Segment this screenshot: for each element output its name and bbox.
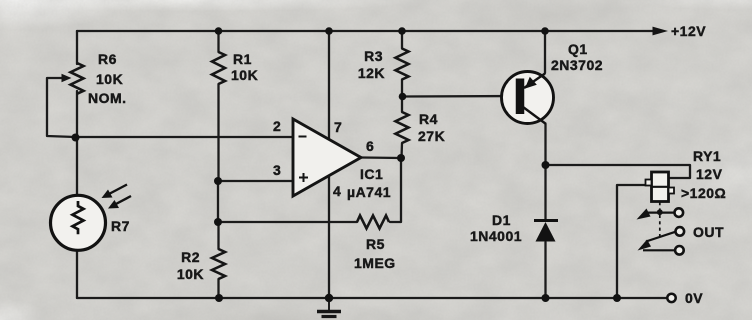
light arrow 2 into R7: [108, 196, 131, 209]
wire R3 top lead: [401, 31, 403, 49]
potentiometer R6 wiper arrow: [62, 74, 72, 82]
node R1 top: [215, 27, 223, 35]
label R1 10K: [231, 51, 258, 83]
svg-text:3: 3: [273, 162, 281, 178]
resistor R2: [212, 249, 225, 279]
svg-text:RY1: RY1: [693, 148, 721, 164]
relay contact NC arm: [637, 209, 676, 220]
diode D1: [534, 221, 558, 242]
svg-text:27K: 27K: [418, 128, 445, 144]
svg-text:7: 7: [334, 119, 342, 135]
node divider pin 3: [214, 177, 222, 185]
svg-text:R7: R7: [111, 218, 130, 234]
photoresistor R7: [51, 195, 106, 250]
wire R5 right lead and feedback vertical: [390, 158, 401, 222]
relay coil RY1: [646, 172, 675, 202]
wire R6 wiper loop: [47, 78, 75, 137]
label D1 1N4001: [470, 212, 522, 244]
svg-text:12K: 12K: [358, 65, 385, 81]
wire 0V bottom rail: [77, 297, 668, 299]
svg-text:+12V: +12V: [671, 23, 706, 39]
node R5 left: [214, 218, 222, 226]
label R6 10K NOM.: [88, 51, 127, 106]
wire D1 to 0V rail: [544, 242, 546, 298]
wire divider to R5 node: [217, 181, 219, 222]
node output junction: [397, 154, 405, 162]
node relay 0V junction: [613, 294, 621, 302]
wire op-amp pin 7 supply: [328, 31, 330, 139]
wire R6 bottom lead to junction: [76, 91, 78, 138]
svg-text:1MEG: 1MEG: [354, 255, 396, 271]
node R2 bottom: [215, 294, 223, 302]
wire relay coil to 0V: [617, 185, 651, 298]
node R6 bottom junction: [72, 134, 80, 142]
node D1 bottom: [542, 294, 550, 302]
label RY1 12V >120ohm: [681, 148, 726, 201]
wire junction to R7: [76, 138, 78, 195]
wire R3 to R4: [401, 80, 403, 113]
power +12V terminal arrow: [653, 27, 669, 36]
transistor Q1: [502, 72, 554, 125]
label R2 10K: [177, 249, 204, 282]
label R3 12K: [358, 48, 385, 81]
resistor R3: [396, 49, 409, 80]
wire base of Q1: [403, 95, 520, 98]
svg-text:6: 6: [366, 138, 374, 154]
svg-text:10K: 10K: [177, 266, 204, 282]
relay contact terminal middle: [676, 227, 685, 236]
node base junction: [399, 93, 407, 101]
wire R1 bottom lead: [217, 84, 219, 181]
wire op-amp pin 4 to ground: [328, 176, 330, 298]
svg-text:4: 4: [333, 183, 341, 199]
node pin 4 ground: [325, 294, 333, 302]
wire R5 left lead: [218, 221, 357, 223]
wire Q1 collector down: [544, 124, 546, 220]
label IC1 µA741: [347, 166, 391, 200]
svg-text:R1: R1: [233, 51, 252, 67]
wire R1 top lead: [217, 31, 219, 52]
node collector relay junction: [542, 161, 550, 169]
wire R4 bottom lead: [400, 143, 403, 158]
wire +12V top rail: [77, 30, 654, 32]
svg-text:2: 2: [273, 118, 281, 134]
relay mechanical link dashed: [659, 202, 661, 236]
svg-text:µA741: µA741: [347, 184, 391, 200]
svg-text:2N3702: 2N3702: [551, 57, 603, 73]
svg-text:D1: D1: [492, 212, 511, 228]
light arrow 1 into R7: [102, 185, 128, 199]
relay contact NO arm: [643, 249, 674, 251]
node R3 top: [398, 27, 406, 35]
svg-text:IC1: IC1: [360, 166, 383, 182]
relay contact terminal bottom: [675, 246, 684, 255]
svg-text:R5: R5: [366, 236, 385, 252]
label Q1 2N3702: [551, 41, 603, 73]
resistor R1: [212, 52, 225, 84]
svg-text:OUT: OUT: [693, 224, 724, 240]
svg-text:12V: 12V: [696, 166, 723, 182]
op-amp IC1: [293, 119, 361, 196]
label R4 27K: [418, 111, 445, 144]
wire collector to relay coil: [546, 165, 691, 178]
svg-text:R6: R6: [98, 51, 117, 67]
svg-text:R2: R2: [181, 249, 200, 265]
svg-text:Q1: Q1: [568, 41, 588, 57]
label R5 1MEG: [354, 236, 396, 271]
wire R7 to 0V rail: [76, 251, 78, 298]
resistor R5: [357, 216, 389, 229]
wire R2 bottom lead: [217, 279, 219, 298]
svg-text:0V: 0V: [685, 290, 703, 306]
wire left column R6 top lead: [76, 31, 78, 64]
svg-text:10K: 10K: [231, 67, 258, 83]
wire op-amp output pin 6: [361, 156, 401, 159]
resistor R4: [396, 112, 409, 143]
wire R2 top lead: [217, 222, 219, 249]
relay contact terminal top: [675, 208, 684, 217]
potentiometer R6: [71, 63, 84, 94]
svg-text:R4: R4: [419, 111, 438, 127]
wire pin 2 input: [76, 136, 293, 138]
terminal 0V: [667, 294, 675, 302]
ground: [317, 298, 341, 317]
svg-text:>120Ω: >120Ω: [681, 185, 726, 201]
node Q1 emitter top: [541, 27, 549, 35]
svg-text:1N4001: 1N4001: [470, 228, 522, 244]
svg-text:NOM.: NOM.: [88, 90, 127, 106]
wire pin 3 input: [218, 180, 293, 182]
svg-text:10K: 10K: [96, 71, 123, 87]
node armature pivot: [657, 209, 663, 215]
node pin 7 top: [325, 27, 333, 35]
wire Q1 emitter to +12V rail: [544, 31, 546, 73]
relay armature: [638, 232, 676, 251]
svg-text:R3: R3: [364, 48, 383, 64]
